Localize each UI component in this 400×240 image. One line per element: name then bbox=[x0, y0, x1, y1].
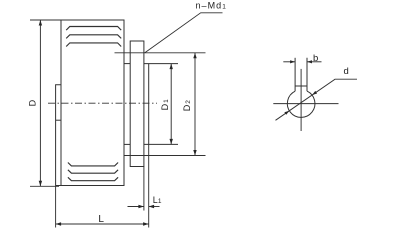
svg-text:d: d bbox=[344, 66, 349, 77]
keyway depth line bbox=[295, 85, 307, 87]
dimension L1 extension left (disc edge) bbox=[143, 167, 145, 211]
svg-text:L: L bbox=[98, 214, 104, 225]
top cooling fin 3 bbox=[66, 43, 121, 47]
dimension b line bbox=[283, 60, 321, 63]
extension line D2 bottom bbox=[124, 155, 206, 157]
extension line D1 top bbox=[144, 63, 178, 65]
bottom cooling fin 2 bbox=[68, 170, 118, 173]
svg-text:L1: L1 bbox=[153, 195, 162, 205]
dimension L / L1 extension right (shaft end) bbox=[148, 144, 150, 227]
leader d diagonal bbox=[276, 79, 358, 120]
extension line D2 top bbox=[115, 52, 206, 54]
leader n-Md1 bbox=[145, 13, 223, 53]
dimension D2 line bbox=[193, 53, 196, 156]
shaft end circle bbox=[287, 91, 315, 117]
svg-text:D: D bbox=[28, 99, 38, 106]
vertical centerline of circle bbox=[300, 69, 302, 131]
dimension D extension bottom bbox=[30, 185, 59, 187]
flange disc bbox=[130, 41, 144, 167]
extension line D1 bottom bbox=[144, 143, 178, 145]
hub ring D1 step bottom edge bbox=[124, 143, 130, 145]
keyway slot right wall bbox=[306, 58, 308, 91]
keyway slot left wall bbox=[294, 58, 296, 91]
dimension D extension top bbox=[30, 19, 61, 21]
svg-text:n–Md1: n–Md1 bbox=[196, 0, 227, 10]
svg-text:D1: D1 bbox=[160, 99, 170, 111]
svg-text:D2: D2 bbox=[182, 100, 192, 112]
svg-text:b: b bbox=[313, 53, 318, 64]
bottom cooling fin 3 bbox=[68, 177, 118, 180]
motor body outline bbox=[61, 20, 124, 186]
dimension D1 line bbox=[170, 64, 173, 145]
horizontal centerline of circle bbox=[273, 103, 338, 105]
dimension L1 line bbox=[128, 205, 160, 208]
dimension D line bbox=[39, 20, 42, 186]
dimension L line bbox=[56, 222, 149, 225]
dimension L extension left (plate edge) bbox=[55, 186, 57, 228]
centerline of shaft axis bbox=[48, 102, 157, 104]
bottom cooling fin 1 bbox=[68, 163, 118, 166]
side plate on body left bbox=[56, 85, 61, 186]
top cooling fin 1 bbox=[66, 27, 121, 31]
hub ring D1 step top edge bbox=[124, 63, 130, 65]
top cooling fin 2 bbox=[66, 35, 121, 39]
shaft boss right edge bbox=[148, 64, 150, 145]
